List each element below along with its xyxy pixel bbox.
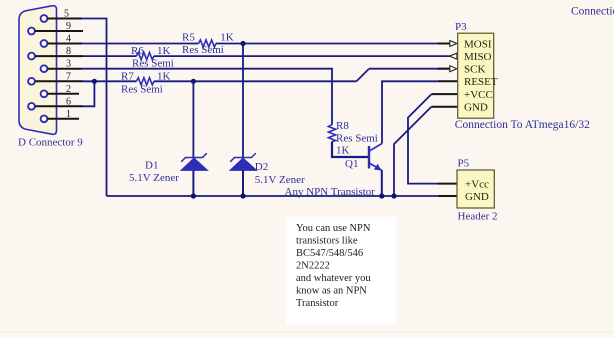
svg-text:and whatever you: and whatever you	[296, 273, 371, 284]
transistor Q1 base bar	[368, 146, 370, 169]
svg-text:R6: R6	[131, 45, 144, 57]
pin stub SCK	[438, 68, 450, 70]
wire jog to SCK	[369, 68, 450, 70]
node junction D1 bottom	[191, 193, 196, 198]
svg-text:Res Semi: Res Semi	[132, 57, 174, 69]
wire D2 cathode	[242, 44, 244, 158]
wire pin4 to R5	[82, 43, 199, 45]
diode D1 triangle	[181, 158, 208, 170]
connector J1 D-shell body	[19, 6, 57, 135]
pin 2 stub	[47, 93, 79, 95]
pin 7 stub	[35, 80, 83, 82]
node junction pin6 jumper	[92, 79, 97, 84]
svg-text:GND: GND	[464, 102, 488, 114]
svg-text:1: 1	[66, 109, 71, 120]
wire D1 cathode	[192, 81, 194, 157]
resistor R7 zigzag	[136, 78, 154, 85]
pin 5 circle	[41, 15, 48, 22]
svg-text:P5: P5	[458, 158, 470, 170]
pin 7 circle	[28, 78, 35, 85]
svg-text:SCK: SCK	[464, 64, 485, 76]
pin 2 circle	[41, 90, 48, 97]
svg-text:4: 4	[66, 34, 71, 45]
wire Q1 emitter to rail	[381, 170, 383, 196]
diode D1 zener bar	[181, 153, 207, 162]
pin stub P5 +Vcc	[438, 183, 458, 185]
svg-text:5.1V Zener: 5.1V Zener	[129, 172, 179, 184]
resistor R8 zigzag	[328, 125, 335, 142]
pin stub MOSI	[438, 43, 450, 45]
connector P5 box	[457, 170, 494, 208]
wire pin7 to R7	[83, 80, 136, 82]
svg-text:D2: D2	[255, 161, 268, 173]
pin 9 stub	[35, 30, 83, 32]
diode D2 triangle	[230, 158, 257, 170]
svg-text:5.1V Zener: 5.1V Zener	[255, 174, 305, 186]
svg-text:2N2222: 2N2222	[296, 261, 330, 272]
pin 4 circle	[41, 40, 48, 47]
transistor Q1 emitter arrowhead	[374, 164, 381, 171]
wire Q1 collector to RESET	[382, 81, 438, 143]
svg-text:MOSI: MOSI	[464, 38, 492, 50]
svg-text:2: 2	[66, 84, 71, 95]
svg-text:7: 7	[66, 71, 71, 82]
pin 6 circle	[28, 103, 35, 110]
transistor Q1 collector diagonal	[369, 144, 382, 152]
svg-text:3: 3	[66, 59, 71, 70]
svg-text:6: 6	[66, 96, 71, 107]
svg-text:R5: R5	[182, 32, 195, 44]
wire pin5 to GND vertical	[82, 19, 107, 197]
wire GND rail	[107, 195, 438, 197]
node junction D2 top	[240, 41, 245, 46]
svg-text:5: 5	[64, 9, 69, 20]
svg-text:R8: R8	[336, 120, 349, 132]
svg-text:1K: 1K	[157, 45, 171, 57]
svg-text:BC547/548/546: BC547/548/546	[296, 248, 363, 259]
pin stub P3 GND	[431, 106, 457, 108]
wire jog diagonal to SCK row	[357, 69, 370, 82]
pin 4 stub	[47, 43, 82, 45]
connector P3 box	[458, 33, 494, 118]
svg-text:Header 2: Header 2	[458, 210, 498, 222]
svg-text:9: 9	[66, 21, 71, 32]
svg-text:transistors like: transistors like	[296, 236, 358, 247]
svg-text:Transistor: Transistor	[296, 298, 339, 309]
pin stub RESET	[438, 80, 458, 82]
pin 8 stub	[35, 55, 83, 57]
svg-text:1K: 1K	[336, 145, 350, 157]
svg-text:+Vcc: +Vcc	[465, 178, 489, 190]
svg-text:Res Semi: Res Semi	[182, 44, 224, 56]
svg-text:RESET: RESET	[464, 76, 498, 88]
svg-text:+VCC: +VCC	[464, 89, 493, 101]
wire R6 to MISO	[154, 55, 450, 57]
wire D2 anode	[242, 170, 244, 196]
wire R5 to MOSI	[216, 43, 450, 45]
wire R7 to jog	[154, 80, 357, 82]
pin 3 circle	[41, 65, 48, 72]
svg-text:D1: D1	[145, 159, 158, 171]
wire P3 VCC run	[408, 94, 438, 184]
note box background	[286, 217, 396, 325]
svg-text:8: 8	[66, 46, 71, 57]
node junction emitter rail	[379, 193, 384, 198]
resistor R5 zigzag	[199, 40, 217, 47]
diode D2 zener bar	[230, 153, 256, 162]
pin 6 stub	[35, 105, 83, 107]
node junction GND rail	[391, 193, 396, 198]
svg-text:MISO: MISO	[464, 51, 492, 63]
pin 1 circle	[41, 115, 48, 122]
pin 3 stub	[47, 68, 82, 70]
wire pin8 to R6	[83, 55, 136, 57]
svg-text:1K: 1K	[157, 70, 171, 82]
pin stub P3 VCC	[432, 93, 458, 95]
node junction D1 top	[191, 79, 196, 84]
pin 1 stub	[47, 118, 79, 120]
wire P3 GND run	[394, 107, 431, 196]
svg-text:Res Semi: Res Semi	[336, 132, 378, 144]
svg-text:Res Semi: Res Semi	[121, 83, 163, 95]
wire D1 anode	[192, 170, 194, 196]
svg-text:GND: GND	[465, 191, 489, 203]
svg-text:know as an NPN: know as an NPN	[296, 286, 367, 297]
wire R8 to Q1 base	[332, 142, 369, 157]
resistor R6 zigzag	[136, 53, 154, 60]
svg-text:Q1: Q1	[345, 158, 358, 170]
arrow SCK input	[450, 66, 457, 72]
svg-text:1K: 1K	[220, 32, 234, 44]
transistor Q1 emitter diagonal	[369, 163, 382, 170]
wire pin6 jumper	[83, 81, 94, 106]
pin stub P5 GND	[438, 195, 457, 197]
svg-text:Connection To Serial Port: Connection To Serial Port	[571, 6, 614, 18]
pin 5 stub	[47, 18, 82, 20]
svg-text:R7: R7	[121, 70, 134, 82]
pin 8 circle	[28, 53, 35, 60]
svg-text:Connection To ATmega16/32: Connection To ATmega16/32	[455, 119, 590, 131]
wire pin3 horizontal	[82, 69, 332, 125]
arrow MOSI input	[450, 41, 457, 47]
svg-text:P3: P3	[455, 21, 467, 33]
pin 9 circle	[28, 28, 35, 35]
arrow MISO output	[449, 53, 457, 59]
svg-text:D Connector 9: D Connector 9	[18, 137, 83, 149]
svg-text:Any NPN Transistor: Any NPN Transistor	[285, 186, 376, 198]
svg-text:You can use NPN: You can use NPN	[296, 223, 371, 234]
faint capture edge line	[0, 332, 614, 333]
node junction D2 bottom	[240, 193, 245, 198]
